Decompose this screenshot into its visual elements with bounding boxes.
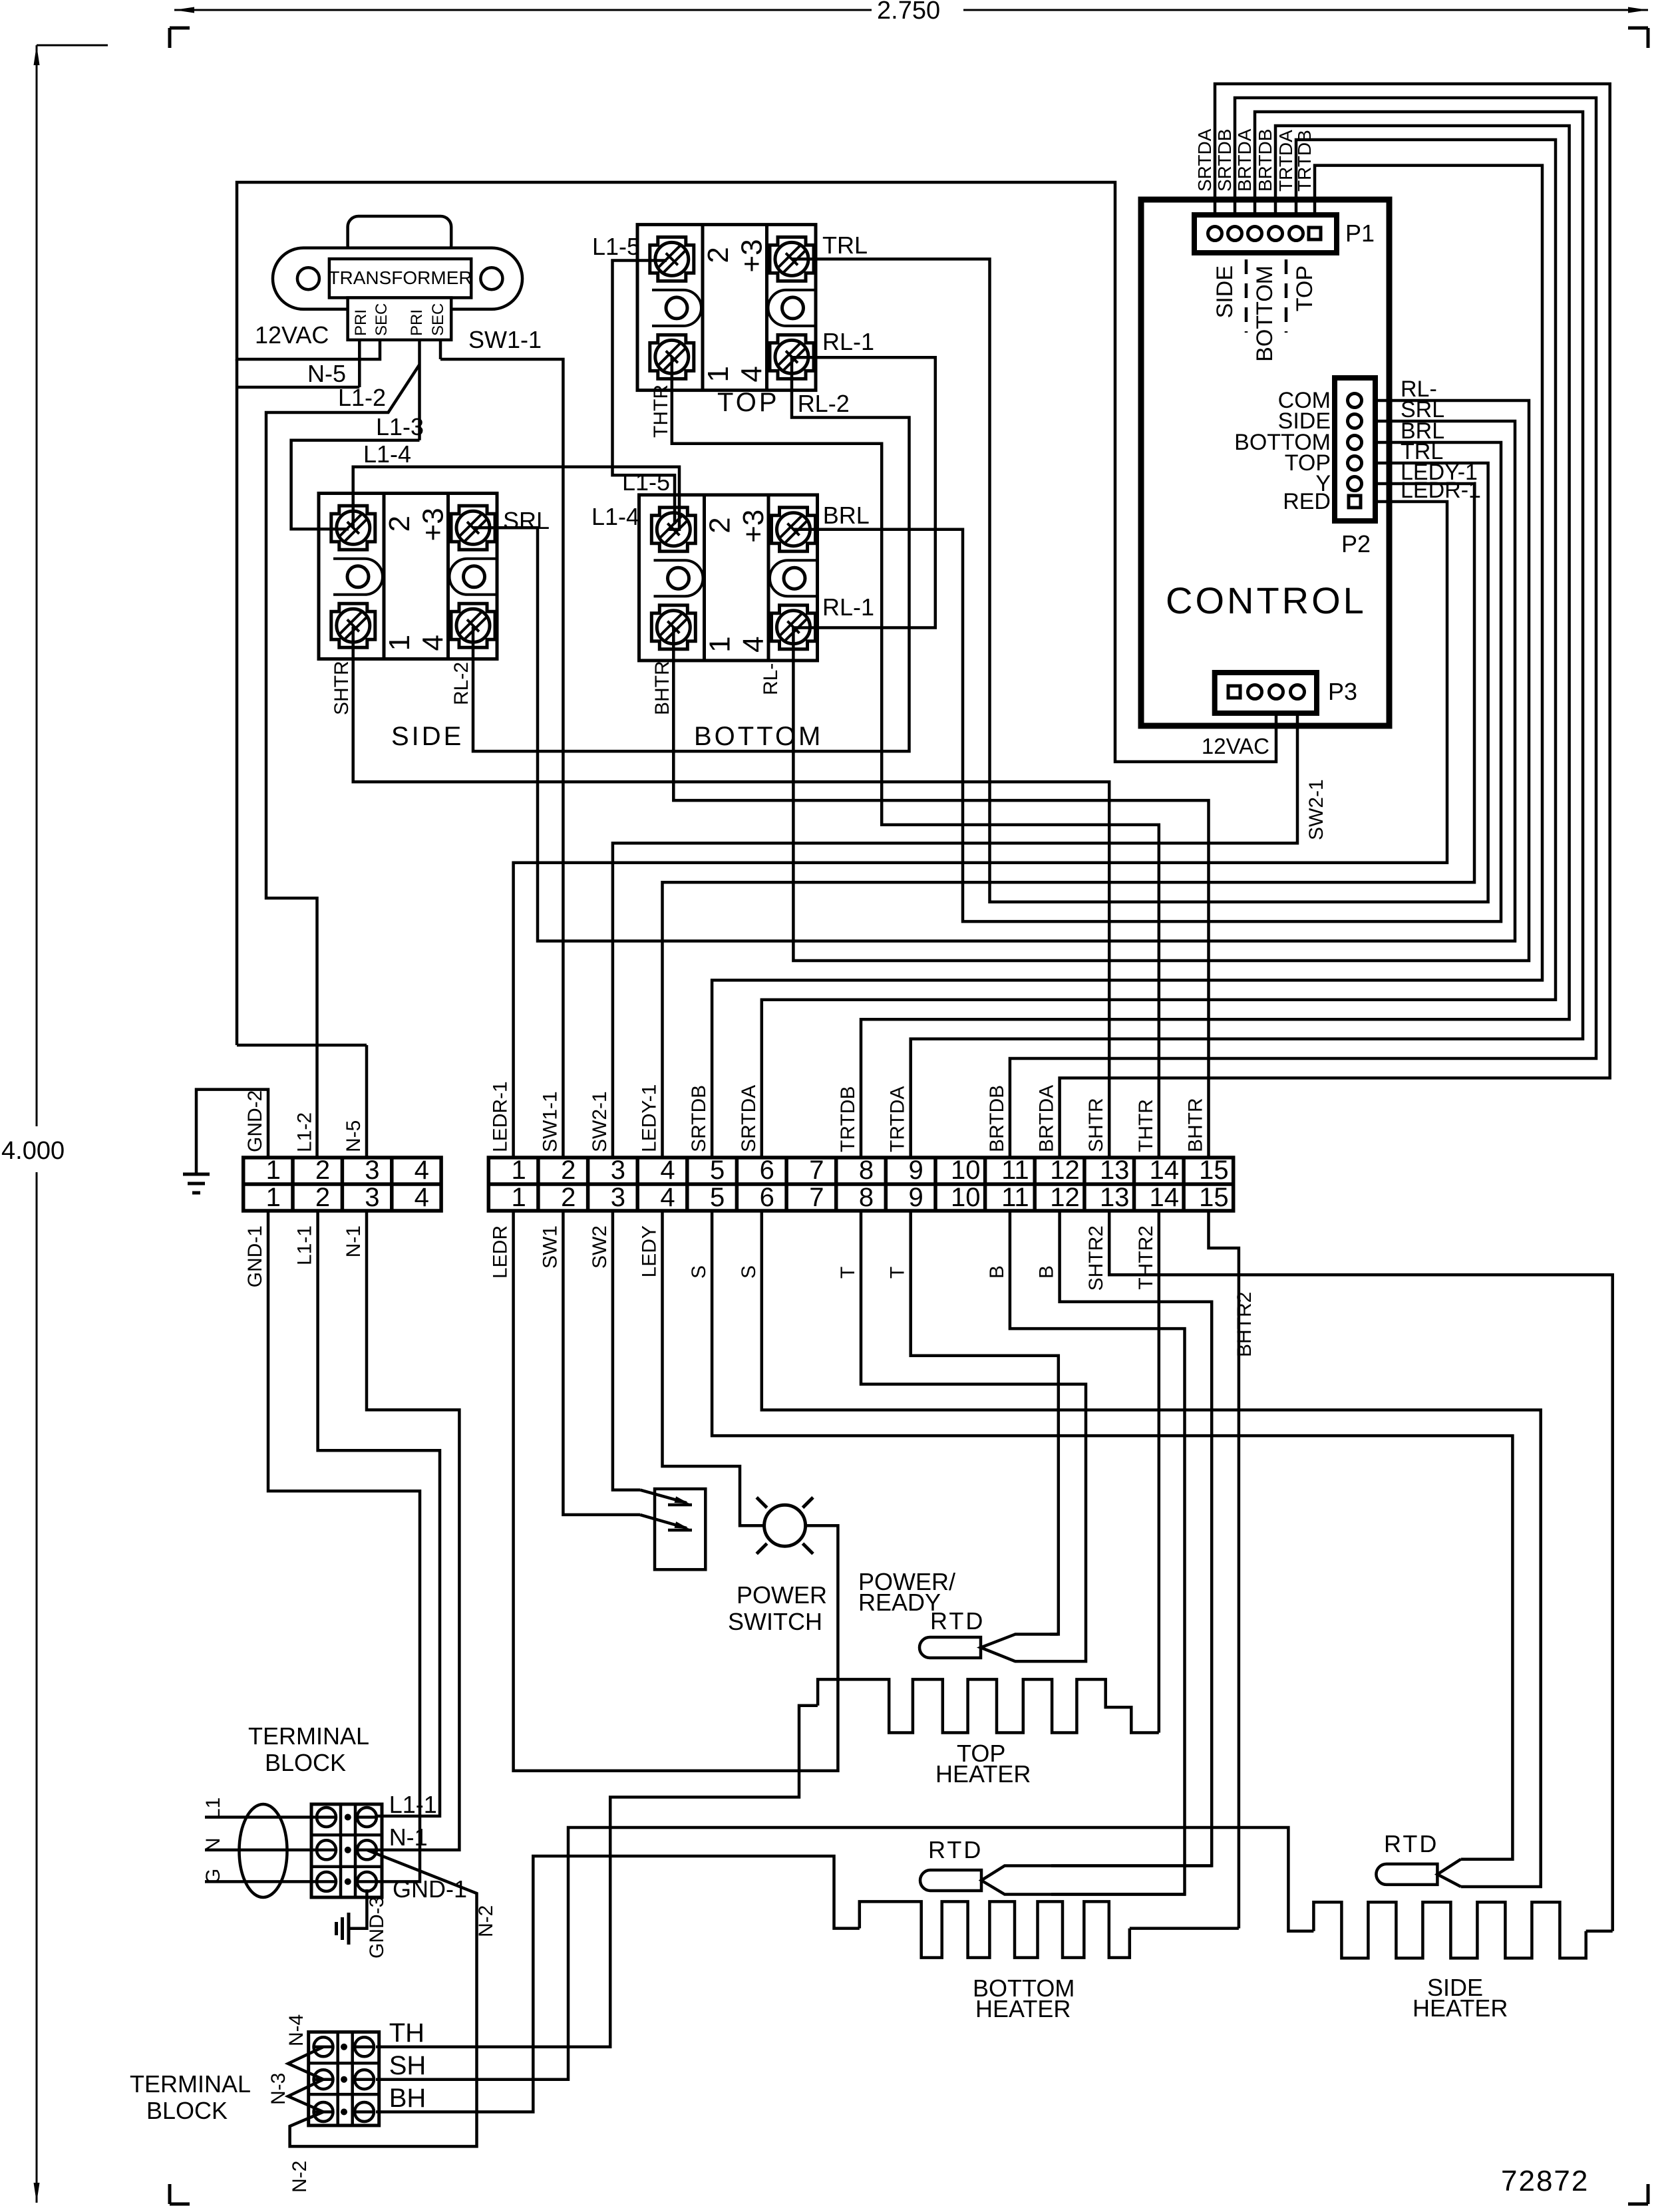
svg-text:LEDR: LEDR [490, 1225, 512, 1279]
wire TRTDA P1 pin to terminal [762, 140, 1556, 1158]
solid-state relay SIDE [319, 494, 497, 659]
svg-text:TOP: TOP [717, 388, 780, 417]
wire BHTR [673, 628, 1208, 1158]
svg-text:TRTDB: TRTDB [837, 1086, 859, 1152]
svg-text:N: N [202, 1837, 224, 1852]
wire T (t9 TRTDA) to TOP RTD [911, 1211, 1059, 1635]
switch blade 2 [640, 1515, 687, 1528]
svg-text:G: G [202, 1869, 224, 1884]
svg-text:BRTDA: BRTDA [1234, 128, 1255, 192]
wire SW1 to switch [563, 1211, 640, 1515]
svg-text:BH: BH [389, 2084, 426, 2113]
P3 pin 1 (square) [1228, 686, 1240, 698]
svg-text:1: 1 [511, 1156, 526, 1185]
svg-text:HEATER: HEATER [975, 1995, 1071, 2022]
svg-text:5: 5 [710, 1183, 725, 1212]
svg-text:3: 3 [611, 1156, 625, 1185]
svg-text:BHTR: BHTR [1185, 1098, 1207, 1152]
svg-text:LEDR-1: LEDR-1 [490, 1081, 512, 1152]
svg-text:1: 1 [266, 1156, 281, 1185]
svg-text:9: 9 [908, 1156, 923, 1185]
svg-text:8: 8 [859, 1156, 874, 1185]
svg-text:10: 10 [951, 1183, 981, 1212]
svg-text:2: 2 [702, 247, 735, 263]
svg-text:SW1: SW1 [539, 1225, 561, 1269]
P2 pin RED (square) [1349, 496, 1361, 508]
svg-text:2: 2 [561, 1183, 576, 1212]
svg-text:14: 14 [1150, 1183, 1180, 1212]
svg-text:SW1-1: SW1-1 [468, 326, 542, 353]
svg-text:RED: RED [1283, 489, 1331, 514]
wire N-3 zigzag [288, 2047, 323, 2112]
svg-text:SW2: SW2 [589, 1225, 611, 1269]
P3 pin 4 [1291, 685, 1305, 699]
svg-text:RTD: RTD [1384, 1830, 1438, 1857]
svg-text:L1-5: L1-5 [622, 468, 670, 496]
svg-text:5: 5 [710, 1156, 725, 1185]
P2 pin BOTTOM [1348, 436, 1362, 450]
wire B (t11 BRTDB) to BOTTOM RTD [1010, 1211, 1185, 1895]
svg-text:2: 2 [561, 1156, 576, 1185]
svg-text:T: T [887, 1267, 909, 1279]
svg-text:THTR: THTR [650, 385, 672, 438]
P3 pin 3 [1269, 685, 1283, 699]
terminal strip 1-4 [244, 1158, 441, 1211]
wire LEDY-1 [663, 484, 1475, 1158]
terminal block 1 [311, 1804, 382, 1897]
ground symbol GND-3 [347, 1913, 351, 1945]
svg-text:T: T [837, 1267, 859, 1279]
svg-text:6: 6 [760, 1183, 774, 1212]
svg-text:TRTDA: TRTDA [1275, 130, 1296, 192]
svg-text:TERMINAL: TERMINAL [130, 2070, 251, 2098]
wire G [205, 1880, 317, 1883]
svg-text:BRTDB: BRTDB [1255, 129, 1275, 192]
svg-text:BRL: BRL [823, 502, 870, 529]
wire SW2 to switch [613, 1211, 640, 1490]
svg-text:BOTTOM: BOTTOM [1252, 265, 1277, 362]
wire L1-1 [318, 1211, 440, 1816]
svg-text:POWER: POWER [737, 1581, 827, 1609]
svg-text:L1-1: L1-1 [294, 1225, 316, 1265]
svg-text:BHTR2: BHTR2 [1234, 1292, 1255, 1357]
svg-text:BLOCK: BLOCK [146, 2097, 228, 2124]
svg-text:LEDY: LEDY [639, 1225, 661, 1277]
wire L1-4 [353, 467, 679, 530]
svg-text:S: S [738, 1265, 760, 1279]
svg-text:SRTDA: SRTDA [738, 1085, 760, 1152]
RTD (top heater) [919, 1637, 981, 1658]
svg-text:SW1-1: SW1-1 [539, 1091, 561, 1152]
svg-text:12VAC: 12VAC [255, 321, 329, 349]
svg-text:1: 1 [383, 635, 416, 651]
svg-text:GND-3: GND-3 [366, 1897, 388, 1959]
ground symbol GND-2 [183, 1173, 210, 1176]
svg-text:3: 3 [365, 1156, 379, 1185]
svg-text:12: 12 [1050, 1156, 1080, 1185]
solid-state relay TOP [637, 225, 816, 391]
svg-text:RL-1: RL-1 [822, 328, 874, 355]
svg-text:+3: +3 [736, 239, 768, 272]
svg-text:READY: READY [858, 1589, 941, 1616]
svg-text:SEC: SEC [429, 303, 447, 336]
svg-text:L1-4: L1-4 [363, 440, 411, 468]
svg-text:P3: P3 [1328, 678, 1357, 705]
top heater element [818, 1679, 1159, 1732]
svg-text:4: 4 [737, 636, 770, 652]
svg-text:8: 8 [859, 1183, 874, 1212]
svg-text:SHTR2: SHTR2 [1085, 1225, 1107, 1291]
wire L1-5 [613, 261, 675, 525]
dimension line 4.000 (left) [36, 45, 38, 1126]
wire N-2 [290, 1850, 477, 2147]
svg-text:TRTDA: TRTDA [887, 1086, 909, 1152]
wire S (t5 SRTDB) to SIDE RTD [712, 1211, 1512, 1859]
svg-text:SRTDA: SRTDA [1194, 128, 1215, 192]
wire GND-3 [349, 1889, 367, 1929]
P1 pin 4 [1269, 227, 1283, 241]
wire SHTR [353, 627, 1110, 1158]
svg-text:2: 2 [315, 1156, 330, 1185]
svg-text:SEC: SEC [373, 303, 391, 336]
svg-text:TRL: TRL [822, 232, 868, 259]
wire BRL [793, 442, 1501, 921]
svg-text:4.000: 4.000 [1, 1137, 65, 1165]
dashed separator SIDE/BOTTOM [1245, 259, 1248, 333]
svg-text:7: 7 [809, 1156, 824, 1185]
svg-text:RL-: RL- [760, 663, 782, 695]
svg-text:13: 13 [1100, 1183, 1130, 1212]
P3 pin 2 [1248, 685, 1262, 699]
svg-text:11: 11 [1001, 1183, 1029, 1212]
svg-text:B: B [1036, 1265, 1058, 1279]
svg-text:RL-2: RL-2 [798, 390, 850, 417]
svg-text:1: 1 [266, 1183, 281, 1212]
svg-text:SWITCH: SWITCH [728, 1608, 822, 1635]
power switch SW [655, 1489, 705, 1569]
wire T (t8 TRTDB) to TOP RTD [861, 1211, 1086, 1661]
wire GND-2 [196, 1090, 268, 1174]
svg-text:GND-2: GND-2 [244, 1090, 266, 1152]
svg-text:4: 4 [736, 366, 768, 382]
connector P3 [1215, 673, 1317, 713]
P2 pin COM [1348, 394, 1362, 408]
svg-text:THTR2: THTR2 [1135, 1225, 1157, 1290]
svg-text:GND-1: GND-1 [393, 1875, 467, 1903]
switch blade 1 [640, 1490, 687, 1503]
wire SRTDA P1 pin to terminal [1060, 84, 1610, 1158]
svg-text:N-1: N-1 [389, 1823, 428, 1851]
svg-text:SIDE: SIDE [391, 722, 464, 751]
wire TRL [792, 259, 1488, 901]
svg-text:2: 2 [383, 516, 416, 532]
svg-text:RTD: RTD [930, 1607, 985, 1635]
svg-text:RL-1: RL-1 [822, 593, 874, 621]
P1 pin 2 [1228, 227, 1242, 241]
svg-text:L1-4: L1-4 [591, 503, 639, 530]
corner mark bottom-right [1628, 2203, 1648, 2206]
svg-text:15: 15 [1199, 1156, 1229, 1185]
svg-text:LEDY-1: LEDY-1 [639, 1084, 661, 1152]
wire BH to bottom heater [376, 1856, 860, 2112]
svg-text:4: 4 [415, 1156, 429, 1185]
wire THTR [672, 357, 1159, 1158]
svg-text:N-1: N-1 [343, 1225, 365, 1257]
svg-text:CONTROL: CONTROL [1166, 579, 1367, 621]
svg-text:L1-1: L1-1 [389, 1791, 437, 1818]
svg-text:LEDR-1: LEDR-1 [1401, 478, 1481, 503]
svg-text:B: B [986, 1265, 1008, 1279]
connector P2 [1335, 378, 1375, 521]
svg-text:12VAC: 12VAC [1202, 734, 1269, 758]
svg-text:SRL: SRL [503, 507, 550, 534]
connector P1 [1194, 215, 1337, 253]
terminal block 2 [309, 2032, 379, 2126]
svg-text:N-2: N-2 [475, 1905, 497, 1937]
wire RL-1 [792, 357, 935, 627]
svg-text:+3: +3 [417, 508, 450, 541]
P1 pin 3 [1248, 227, 1262, 241]
dashed separator BOTTOM/TOP [1285, 259, 1288, 333]
svg-text:2: 2 [315, 1183, 330, 1212]
svg-text:4: 4 [415, 1183, 429, 1212]
svg-text:13: 13 [1100, 1156, 1130, 1185]
svg-text:3: 3 [611, 1183, 625, 1212]
wire LEDY to lamp [663, 1211, 764, 1525]
wire TRTDB P1 pin to terminal [712, 166, 1542, 1158]
svg-text:2.750: 2.750 [877, 0, 940, 25]
wire BRTDA P1 pin to terminal [911, 112, 1583, 1158]
dimension line 2.750 (top) [174, 9, 872, 11]
side heater element [1313, 1902, 1585, 1958]
svg-text:SH: SH [389, 2051, 426, 2080]
wire SW1-1 from SEC-R [439, 340, 442, 359]
cable ellipse [240, 1804, 287, 1897]
wire S (t6 SRTDA) to SIDE RTD [762, 1211, 1541, 1887]
wire LEDR-1 [514, 502, 1447, 1158]
svg-text:L1-2: L1-2 [294, 1112, 316, 1152]
svg-text:1: 1 [702, 366, 735, 382]
svg-text:N-4: N-4 [285, 2014, 307, 2046]
svg-text:SIDE: SIDE [1212, 265, 1238, 318]
wire N-5 [237, 386, 359, 389]
wire N-1 [367, 1211, 459, 1850]
svg-text:4: 4 [660, 1156, 675, 1185]
wire SH to side heater [376, 1827, 1313, 2080]
svg-text:14: 14 [1150, 1156, 1180, 1185]
svg-text:11: 11 [1001, 1156, 1029, 1185]
transformer T1 [348, 216, 452, 256]
svg-text:SW2-1: SW2-1 [589, 1091, 611, 1152]
svg-text:N-3: N-3 [267, 2073, 289, 2105]
svg-text:SW2-1: SW2-1 [1305, 779, 1327, 840]
svg-text:7: 7 [809, 1183, 824, 1212]
svg-text:SRTDB: SRTDB [688, 1085, 710, 1152]
wire SW1-1 [440, 359, 563, 1158]
svg-text:RL-2: RL-2 [450, 662, 472, 705]
svg-text:L1: L1 [202, 1798, 224, 1819]
svg-text:BRTDB: BRTDB [986, 1085, 1008, 1152]
svg-text:N-5: N-5 [307, 360, 346, 387]
bottom heater element [860, 1901, 1130, 1957]
svg-text:P2: P2 [1341, 530, 1371, 557]
wire SW2-1 from P3 [613, 713, 1297, 1158]
wire B (t12 BRTDA) to BOTTOM RTD [1051, 1211, 1212, 1866]
svg-text:TOP: TOP [1292, 265, 1317, 311]
svg-text:4: 4 [417, 635, 450, 651]
svg-text:SHTR: SHTR [331, 661, 353, 715]
wire SHTR2 to SIDE heater [1109, 1211, 1613, 1931]
wire 12VAC loop (transformer SEC to P3) [237, 182, 1276, 762]
wire N [205, 1849, 317, 1852]
svg-text:SRTDB: SRTDB [1214, 129, 1235, 192]
RTD (side heater) [1376, 1864, 1437, 1885]
svg-text:+3: +3 [737, 510, 770, 543]
svg-text:BOTTOM: BOTTOM [694, 722, 823, 751]
P1 pin 6 (square) [1309, 228, 1321, 239]
wire L1-3 [291, 440, 420, 530]
RTD (bottom heater) [920, 1870, 981, 1891]
P2 pin Y [1348, 477, 1362, 491]
wire GND-1 [268, 1211, 420, 1881]
svg-text:N-5: N-5 [343, 1120, 365, 1152]
P2 pin SIDE [1348, 414, 1362, 428]
svg-text:4: 4 [660, 1183, 675, 1212]
svg-text:6: 6 [760, 1156, 774, 1185]
svg-text:TH: TH [389, 2018, 424, 2048]
wire TH to top heater [376, 1706, 818, 2047]
svg-text:3: 3 [365, 1183, 379, 1212]
svg-text:TRTDB: TRTDB [1294, 130, 1315, 192]
wire N-5 from PRI-L [358, 340, 361, 387]
svg-text:L1-5: L1-5 [592, 233, 640, 260]
svg-text:HEATER: HEATER [935, 1760, 1031, 1788]
wire RL- to P2 COM [793, 400, 1529, 961]
svg-text:BRTDA: BRTDA [1036, 1085, 1058, 1152]
corner mark top-left [168, 28, 172, 48]
svg-text:HEATER: HEATER [1413, 1994, 1508, 2022]
svg-text:RTD: RTD [928, 1836, 983, 1863]
svg-text:1: 1 [704, 636, 737, 652]
solid-state relay BOTTOM [639, 495, 818, 661]
svg-text:GND-1: GND-1 [244, 1225, 266, 1287]
svg-text:15: 15 [1199, 1183, 1229, 1212]
terminal strip 1-15 [488, 1158, 1233, 1211]
wire BHTR2 to BOTTOM heater [1209, 1211, 1239, 1929]
corner mark bottom-left [168, 2184, 172, 2204]
P1 pin 1 [1208, 227, 1222, 241]
svg-text:PRI: PRI [352, 309, 370, 336]
wire THTR2 to TOP heater [1158, 1211, 1161, 1733]
svg-text:1: 1 [511, 1183, 526, 1212]
wire RL-2 [473, 357, 910, 751]
svg-text:9: 9 [908, 1183, 923, 1212]
P1 pin 5 [1289, 227, 1303, 241]
svg-text:SHTR: SHTR [1085, 1098, 1107, 1152]
svg-text:P1: P1 [1345, 220, 1375, 247]
corner mark top-right [1628, 27, 1648, 30]
lamp POWER/READY [764, 1505, 806, 1546]
svg-text:TRANSFORMER: TRANSFORMER [328, 267, 472, 288]
svg-text:10: 10 [951, 1156, 981, 1185]
svg-text:L1-3: L1-3 [376, 413, 424, 440]
wire L1-3 from PRI-R [418, 340, 421, 440]
P2 pin TOP [1348, 456, 1362, 470]
svg-text:BHTR: BHTR [651, 661, 673, 715]
svg-text:L1-2: L1-2 [338, 384, 386, 411]
wire L1-2 [266, 365, 420, 1158]
wire LEDR to lamp [514, 1211, 838, 1771]
wire SRTDB P1 pin to terminal [1010, 98, 1596, 1158]
svg-text:PRI: PRI [408, 309, 426, 336]
wire SRL [473, 421, 1515, 941]
svg-text:THTR: THTR [1135, 1099, 1157, 1152]
wire BRTDB P1 pin to terminal [861, 126, 1570, 1158]
svg-text:TERMINAL: TERMINAL [248, 1722, 369, 1750]
svg-text:2: 2 [704, 517, 737, 533]
svg-text:12: 12 [1050, 1183, 1080, 1212]
svg-text:72872: 72872 [1501, 2165, 1589, 2197]
svg-text:S: S [688, 1265, 710, 1279]
svg-text:BLOCK: BLOCK [265, 1749, 346, 1776]
svg-text:N-2: N-2 [289, 2161, 311, 2193]
wire L1 [205, 1816, 317, 1819]
CONTROL board outline [1141, 200, 1389, 726]
